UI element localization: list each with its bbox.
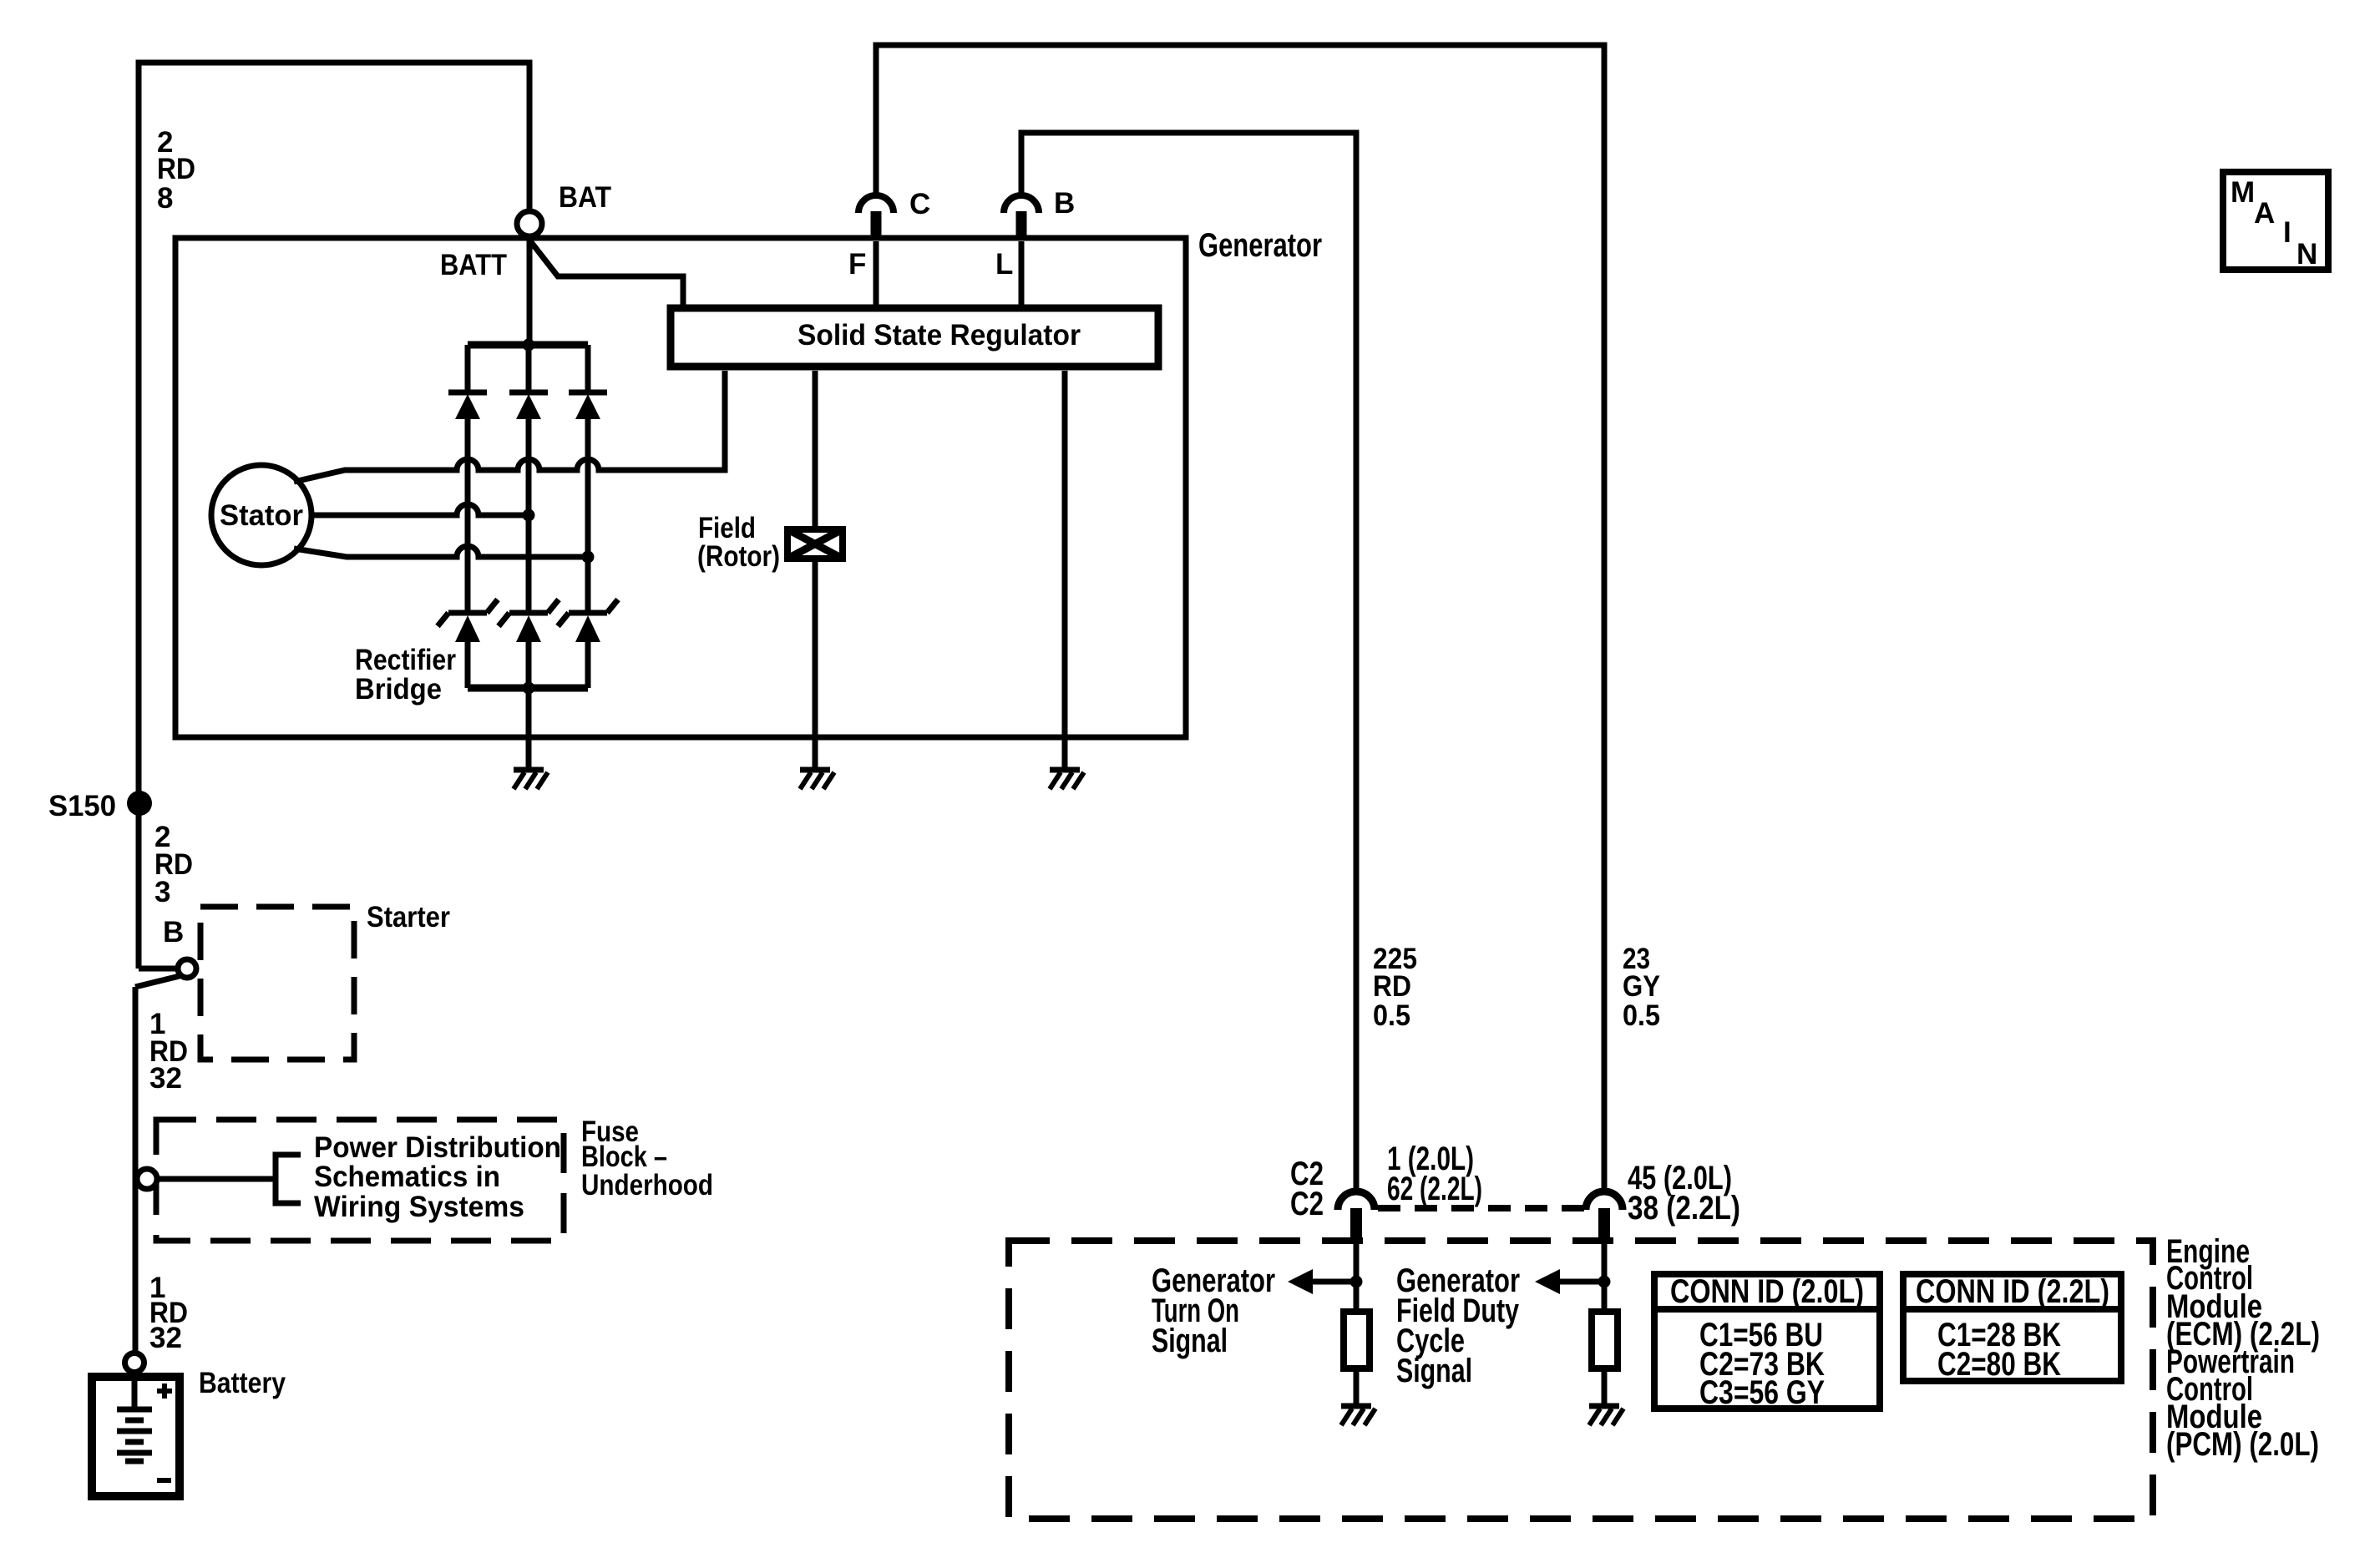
field rotor winding symbol [787, 529, 843, 559]
solid state regulator box [671, 308, 1158, 367]
zener diode D6 [558, 599, 618, 642]
svg-text:C3=56 GY: C3=56 GY [1699, 1374, 1825, 1411]
svg-text:L: L [995, 248, 1013, 281]
rectifier column 2 wire lower [526, 642, 532, 688]
svg-text:C2: C2 [1290, 1186, 1324, 1222]
svg-text:32: 32 [149, 1322, 182, 1354]
junction dot top bar [523, 339, 535, 352]
svg-text:Bridge: Bridge [355, 673, 442, 706]
terminal B circle at starter [178, 959, 196, 978]
svg-text:F: F [848, 248, 866, 281]
svg-text:0.5: 0.5 [1623, 999, 1660, 1032]
label 1 RD 32 upper [149, 1008, 188, 1095]
connector arc right [1586, 1191, 1623, 1242]
battery box [92, 1377, 180, 1496]
ground regulator [1050, 770, 1084, 789]
CONN ID 2.0L table [1654, 1274, 1880, 1409]
junction dot bottom bar [523, 682, 535, 695]
label Rectifier Bridge [355, 644, 456, 706]
junction dot phase 2 [523, 509, 535, 522]
svg-text:Underhood: Underhood [581, 1169, 713, 1201]
label Battery [199, 1367, 286, 1399]
label Generator Field Duty Cycle Signal [1396, 1262, 1520, 1389]
MAIN page marker box [2223, 172, 2328, 270]
label 1 RD 32 lower [149, 1272, 188, 1354]
svg-text:B: B [163, 916, 184, 948]
wire resistor to ground right [1602, 1368, 1608, 1404]
stator phase wire 1 to regulator [294, 371, 725, 482]
wire regulator right pin to ground [1062, 371, 1068, 768]
svg-text:B: B [1054, 187, 1075, 220]
wire regulator to field coil [813, 371, 818, 529]
rectifier column 1 wire upper [465, 345, 471, 390]
svg-text:A: A [2254, 197, 2275, 230]
label BAT [559, 181, 611, 214]
junction dot turn on [1350, 1276, 1363, 1288]
wire BAT down to rectifier bridge [527, 236, 533, 345]
label MAIN diagonal [2231, 176, 2317, 271]
ECM PCM dashed box [1009, 1241, 2153, 1519]
battery cells [117, 1373, 152, 1461]
label Generator [1198, 227, 1322, 264]
terminal BAT ring [517, 211, 542, 236]
label Solid State Regulator [798, 319, 1081, 352]
ground ECM right [1589, 1406, 1623, 1425]
ground rectifier bridge [514, 770, 548, 789]
svg-text:C: C [909, 188, 930, 220]
wire F stub [874, 241, 879, 306]
svg-text:32: 32 [149, 1062, 182, 1095]
diode D2 [509, 392, 548, 419]
svg-text:BAT: BAT [559, 181, 611, 214]
label 2 RD 8 [157, 126, 195, 215]
svg-text:Signal: Signal [1396, 1353, 1472, 1389]
svg-text:38 (2.2L): 38 (2.2L) [1628, 1190, 1740, 1227]
label 225 RD 0.5 [1373, 943, 1417, 1032]
terminal B arc [1004, 195, 1039, 240]
wire into fuse block [157, 1176, 276, 1182]
junction dot field duty [1598, 1276, 1611, 1288]
svg-text:0.5: 0.5 [1373, 999, 1410, 1032]
diode D3 [569, 392, 607, 419]
svg-text:3: 3 [154, 876, 170, 908]
rectifier column 3 wire lower [585, 642, 591, 688]
stator phase wire 2 [311, 504, 529, 515]
svg-text:(PCM) (2.0L): (PCM) (2.0L) [2166, 1426, 2319, 1463]
label Engine Control Module ECM PCM [2166, 1233, 2320, 1463]
wire L stub [1019, 241, 1025, 306]
svg-text:N: N [2296, 238, 2317, 271]
svg-text:CONN ID (2.0L): CONN ID (2.0L) [1670, 1273, 1864, 1310]
svg-text:Battery: Battery [199, 1367, 286, 1399]
ground ECM left [1341, 1406, 1375, 1425]
battery terminal circle [125, 1353, 144, 1373]
label pin 45 and 38 [1628, 1160, 1740, 1227]
battery plus sign [157, 1383, 172, 1399]
diode D1 [448, 392, 487, 419]
connector circle at fuse block [137, 1169, 157, 1189]
bracket reference to power distribution schematics [276, 1155, 301, 1203]
starter dashed box [200, 907, 354, 1060]
CONN ID 2.2L table [1903, 1274, 2121, 1381]
svg-text:M: M [2231, 176, 2255, 209]
svg-text:Signal: Signal [1152, 1323, 1228, 1359]
wire 1 RD 32 down to fuse block and battery [133, 987, 139, 1355]
label pin 1 and 62 [1387, 1141, 1482, 1207]
resistor field duty [1592, 1312, 1618, 1368]
svg-text:Solid State Regulator: Solid State Regulator [798, 319, 1081, 352]
label Stator [220, 499, 303, 532]
label Starter [367, 901, 450, 933]
arrow generator field duty [1535, 1269, 1604, 1294]
svg-text:(Rotor): (Rotor) [697, 540, 780, 573]
label Field Rotor [697, 512, 780, 573]
svg-text:Wiring Systems: Wiring Systems [314, 1191, 524, 1223]
svg-text:8: 8 [157, 182, 173, 215]
rectifier column 2 wire upper [526, 345, 532, 390]
svg-text:BATT: BATT [440, 249, 507, 281]
generator box [175, 238, 1186, 737]
svg-text:S150: S150 [48, 790, 116, 822]
labels C1 C2 pins 2.2L [1937, 1317, 2061, 1383]
svg-text:GY: GY [1623, 970, 1660, 1003]
switch lever starter solenoid [135, 976, 180, 987]
rectifier column 3 wire middle [585, 419, 591, 613]
label B starter terminal [163, 916, 184, 948]
zener diode D5 [499, 599, 559, 642]
svg-text:Rectifier: Rectifier [355, 644, 456, 676]
svg-text:Stator: Stator [220, 499, 303, 532]
junction dot phase 3 [582, 551, 595, 564]
wire 23 GY 0.5 from C over to PCM [876, 45, 1604, 1192]
zener diode D4 [438, 599, 498, 642]
rectifier column 2 wire middle [526, 419, 532, 613]
rectifier top bar [468, 341, 588, 349]
svg-text:62 (2.2L): 62 (2.2L) [1387, 1171, 1482, 1207]
label CONN ID 2.0L [1670, 1273, 1864, 1310]
svg-text:I: I [2283, 216, 2291, 249]
label CONN ID 2.2L [1916, 1273, 2109, 1310]
label C2 C2 [1290, 1156, 1324, 1222]
fuse block dashed box [156, 1120, 564, 1241]
svg-text:CONN ID (2.2L): CONN ID (2.2L) [1916, 1273, 2109, 1310]
rectifier column 1 wire middle [465, 419, 471, 613]
wire 225 RD 0.5 from B over to PCM [1021, 133, 1356, 1192]
rectifier bottom bar [468, 685, 588, 692]
wire: battery feed 2 RD 8 from S150 up and over to generator BAT [139, 63, 529, 969]
svg-text:Schematics in: Schematics in [314, 1161, 500, 1193]
wire BATT to regulator input [531, 242, 683, 306]
label B generator terminal [1054, 187, 1075, 220]
stator phase wire 3 [294, 546, 590, 557]
labels C1 C2 C3 pins [1699, 1317, 1825, 1411]
wire stub to starter B terminal [139, 966, 177, 972]
svg-text:Starter: Starter [367, 901, 450, 933]
svg-text:C2=80 BK: C2=80 BK [1937, 1346, 2061, 1383]
resistor turn on [1344, 1312, 1370, 1368]
ground field [800, 770, 834, 789]
arrow generator turn on signal [1288, 1269, 1356, 1294]
label 23 GY 0.5 [1623, 943, 1660, 1032]
wire generator turn on signal [1354, 1242, 1360, 1312]
label Fuse Block Underhood [581, 1115, 713, 1201]
battery minus sign [157, 1478, 171, 1483]
svg-text:RD: RD [157, 153, 195, 185]
label F [848, 248, 866, 281]
svg-text:Power Distribution: Power Distribution [314, 1131, 561, 1164]
label L [995, 248, 1013, 281]
wire generator field duty signal [1602, 1242, 1608, 1312]
wire resistor to ground left [1354, 1368, 1360, 1404]
stator circle [211, 465, 311, 565]
label Generator Turn On Signal [1152, 1262, 1275, 1359]
wire rectifier to ground [526, 688, 532, 768]
label C [909, 188, 930, 220]
label S150 [48, 790, 116, 822]
terminal C arc [858, 195, 894, 240]
splice S150 [127, 791, 152, 816]
connector C2 arc left [1338, 1191, 1375, 1242]
svg-text:Generator: Generator [1198, 227, 1322, 264]
label BATT [440, 249, 507, 281]
wire field coil to ground [813, 559, 818, 768]
label Power Distribution Schematics in Wiring Systems [314, 1131, 561, 1223]
label 2 RD 3 [154, 821, 193, 908]
dashed connector line C2 [1378, 1205, 1584, 1211]
rectifier column 3 wire upper [585, 345, 591, 390]
rectifier column 1 wire lower [465, 642, 471, 688]
svg-text:RD: RD [1373, 970, 1411, 1003]
